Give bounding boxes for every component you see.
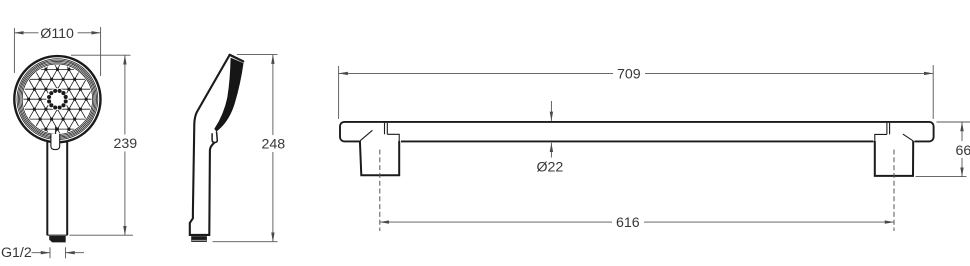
hook loop detail (212, 132, 217, 143)
svg-text:Ø110: Ø110 (40, 26, 74, 42)
inner channel line (55, 127, 57, 137)
rim thin rings (17, 59, 98, 140)
dimension 709 (339, 65, 934, 119)
dimension 616 (380, 221, 894, 223)
dimension 66 (916, 122, 970, 177)
svg-text:616: 616 (616, 215, 640, 231)
svg-text:709: 709 (617, 66, 641, 82)
nozzle mesh pattern (23, 65, 91, 133)
svg-text:239: 239 (114, 136, 138, 152)
water inlet U detail (51, 134, 60, 150)
bar tube (340, 122, 934, 141)
left bracket centerline (379, 150, 381, 232)
center hub (46, 88, 68, 110)
svg-text:Ø22: Ø22 (537, 159, 564, 175)
dimension Ø110 (14, 27, 100, 76)
side view back shell dark wedge (214, 58, 243, 132)
shower head front face: outer circle (14, 56, 100, 142)
svg-text:248: 248 (262, 136, 286, 152)
dimension G1/2 (32, 247, 85, 258)
dimension 248 (213, 55, 278, 242)
side view top edge (230, 55, 244, 62)
right bracket centerline (893, 150, 895, 232)
svg-text:66: 66 (956, 143, 970, 159)
handle front view (47, 130, 67, 235)
side view outline left/front edge (190, 55, 230, 235)
left bracket (360, 123, 399, 176)
dimension Ø22 (550, 101, 552, 158)
white cover under brackets (360, 139, 402, 145)
svg-text:G1/2: G1/2 (1, 245, 32, 261)
side connector nut (191, 236, 207, 242)
dimension 239 (70, 55, 134, 235)
G1/2 connector nut front view (49, 236, 65, 242)
right bracket (875, 123, 913, 176)
side view silhouette (190, 55, 244, 235)
